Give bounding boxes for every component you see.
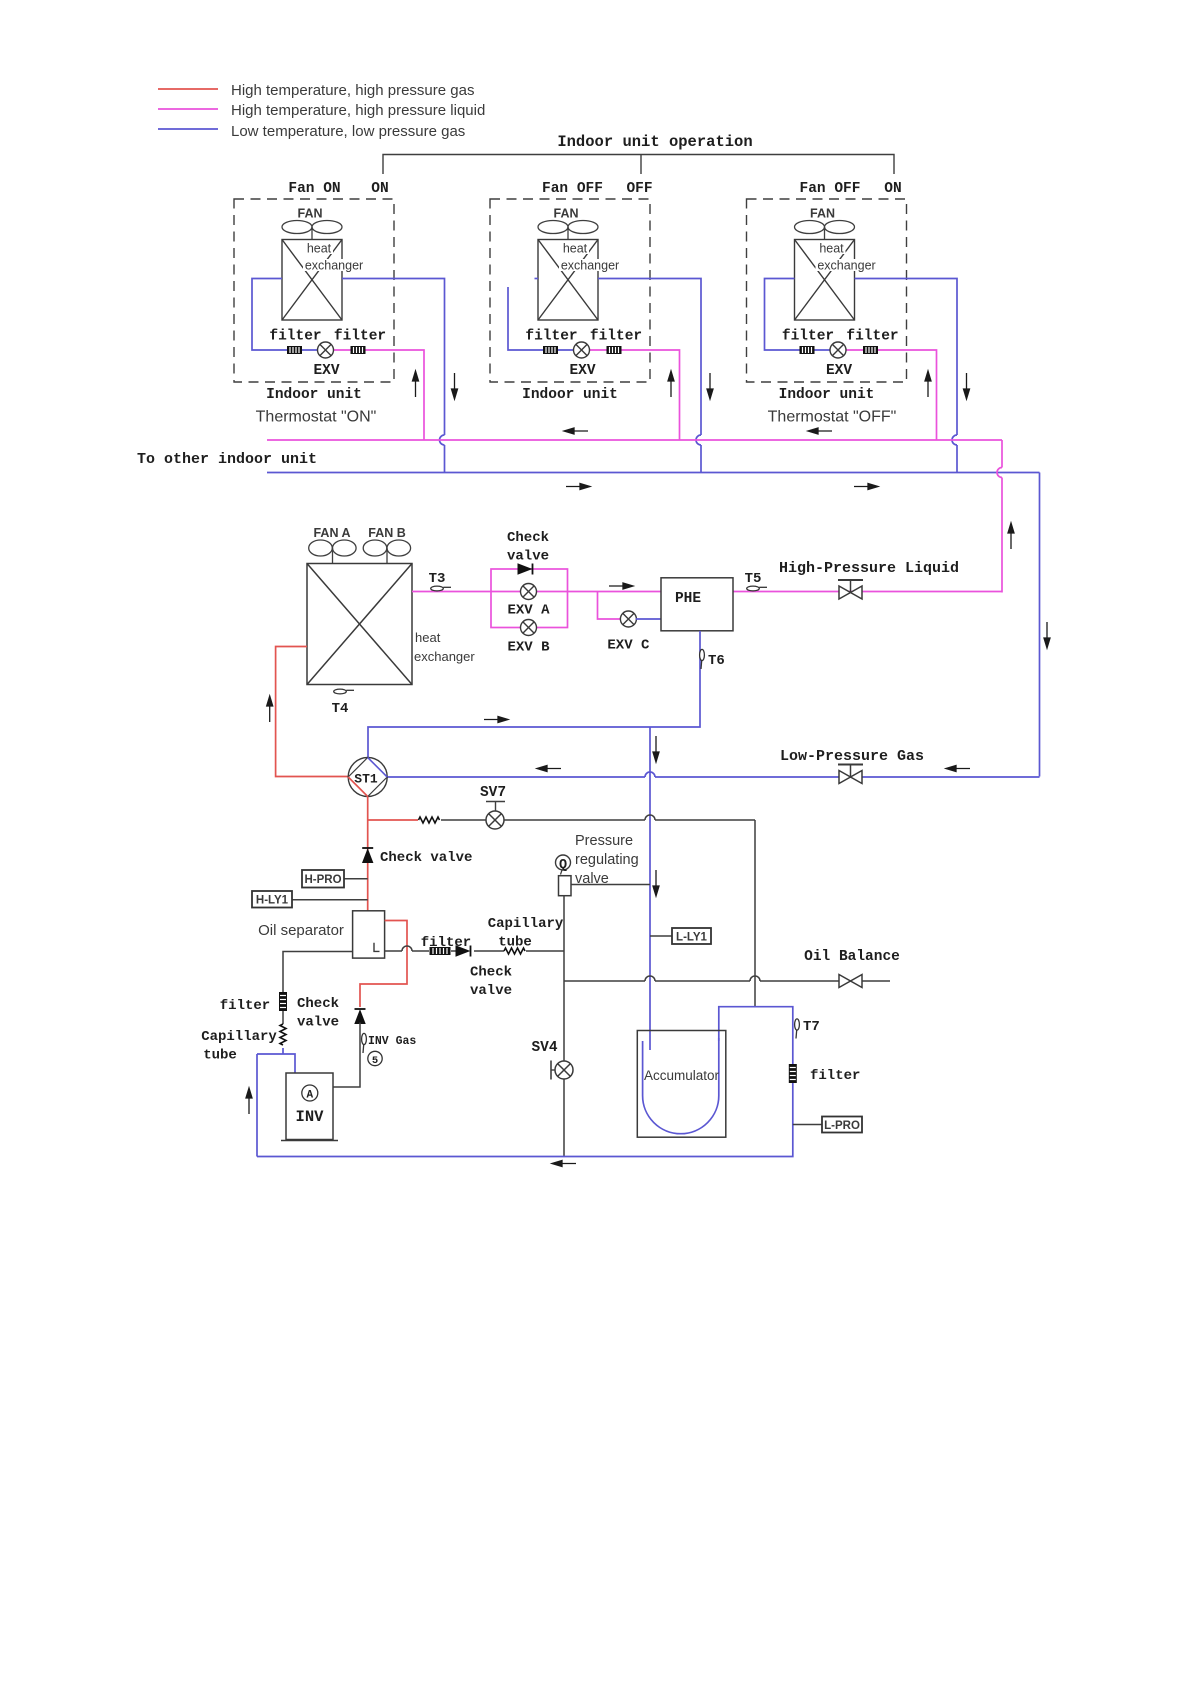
indoor unit 2 dashed enclosure — [490, 199, 650, 382]
svg-text:INV: INV — [296, 1108, 325, 1126]
wire: magenta high pressure liquid bus — [267, 439, 1002, 441]
svg-text:Fan OFF: Fan OFF — [800, 181, 861, 197]
svg-text:T3: T3 — [429, 571, 446, 587]
indoor unit 3 wire: magenta pipe EXV to filter2 and out to bus riser — [845, 350, 936, 440]
hop: magenta riser over blue bus — [997, 468, 1002, 478]
svg-text:FAN B: FAN B — [368, 526, 406, 540]
svg-text:ON: ON — [884, 181, 901, 197]
svg-text:Oil Balance: Oil Balance — [804, 949, 900, 965]
indoor unit 3 hop: blue riser over magenta bus — [952, 435, 957, 445]
indoor unit 1 wire: blue pipe filter to EXV — [302, 349, 318, 351]
wire: blue low pressure gas bus — [267, 472, 1040, 474]
svg-text:SV7: SV7 — [480, 785, 506, 801]
L-PRO sensor box — [793, 1124, 822, 1126]
circled 5 — [368, 1051, 382, 1065]
svg-text:H-LY1: H-LY1 — [256, 895, 289, 907]
svg-text:EXV: EXV — [826, 363, 852, 379]
indoor unit 1 group — [234, 181, 445, 473]
svg-text:Thermostat "ON": Thermostat "ON" — [256, 409, 377, 426]
T6 sensor — [700, 649, 705, 669]
legend: high temperature high pressure liquid line — [158, 108, 218, 110]
indoor unit 3 dashed enclosure — [747, 199, 907, 382]
svg-text:ON: ON — [371, 181, 388, 197]
svg-text:EXV B: EXV B — [507, 640, 550, 656]
svg-text:Indoor unit operation: Indoor unit operation — [557, 133, 752, 151]
svg-text:regulating: regulating — [575, 852, 639, 868]
svg-text:EXV A: EXV A — [507, 603, 550, 619]
svg-text:Low-Pressure Gas: Low-Pressure Gas — [780, 748, 924, 765]
wire: red pipe from outdoor HX left down to ST1 — [276, 647, 349, 777]
svg-text:FAN: FAN — [554, 207, 579, 221]
indoor unit 3 filter left — [800, 346, 815, 354]
svg-text:H-PRO: H-PRO — [304, 874, 341, 886]
svg-text:filter: filter — [810, 1068, 860, 1084]
SV4 solenoid valve — [555, 1061, 573, 1079]
wire: dark oil line from separator bottom-left — [283, 952, 353, 993]
svg-text:Check: Check — [470, 965, 512, 981]
wire: magenta branch down to EXV C — [598, 592, 622, 620]
svg-text:filter: filter — [525, 329, 577, 345]
arrow up unit1 magenta riser — [413, 371, 419, 397]
indoor unit 1 heat exchanger — [282, 240, 342, 321]
wire: PRV outlet to blue vertical — [572, 884, 651, 886]
arrow up unit2 magenta riser — [668, 371, 674, 397]
svg-text:5: 5 — [372, 1055, 378, 1067]
wire: magenta riser to high pressure liquid line — [1001, 440, 1003, 593]
indoor unit 3 wire: blue gas pipe from heat exchanger right down to bus — [855, 279, 958, 473]
svg-text:A: A — [306, 1090, 313, 1102]
legend: high temperature high pressure gas line — [158, 88, 218, 90]
arrow up on red pipe — [267, 696, 273, 722]
outdoor heat exchanger label — [413, 630, 447, 643]
capillary tube vertical — [280, 1024, 286, 1045]
indoor unit 1 fan blades — [282, 221, 342, 240]
indoor unit 3 wire: blue liquid-side pipe from heat exchanger to filter — [765, 279, 800, 351]
wire: blue vertical from mid line down to accumulator inlet — [649, 727, 651, 1050]
accumulator U tube — [643, 1038, 719, 1134]
outdoor heat exchanger — [307, 564, 412, 685]
indoor unit 1 filter right — [351, 346, 366, 354]
svg-text:valve: valve — [470, 983, 512, 999]
svg-text:Accumulator: Accumulator — [644, 1068, 720, 1083]
filter on accumulator outlet — [789, 1064, 797, 1083]
pressure regulating valve — [559, 876, 572, 896]
arrow down unit3 blue riser — [964, 373, 970, 399]
svg-text:ST1: ST1 — [354, 772, 378, 787]
wire: dark vertical from SV7 corner down to accumulator outlet line — [754, 820, 756, 1007]
indoor unit 2 hop: blue riser over magenta bus — [696, 435, 701, 445]
EXV A — [521, 584, 537, 600]
check valve on red discharge line — [362, 848, 373, 863]
wire: blue riser from bus down to low pressure gas line — [1039, 473, 1041, 777]
svg-text:heat: heat — [563, 242, 588, 256]
wire: oil balance line — [564, 980, 890, 982]
filter on left branch — [279, 992, 287, 1011]
arrow left on LPG line — [946, 766, 970, 772]
svg-text:L-LY1: L-LY1 — [676, 932, 707, 944]
wire: dark line check valve down to INV — [333, 1023, 360, 1088]
check valve on top edge of box — [518, 564, 533, 575]
svg-text:exchanger: exchanger — [414, 649, 475, 664]
svg-text:T4: T4 — [332, 701, 349, 717]
svg-text:filter: filter — [334, 329, 386, 345]
wire: blue suction piping from capillary to INV and to bottom bus — [257, 1048, 295, 1157]
wire: red pipe ST1 bottom to oil separator — [367, 797, 369, 911]
svg-text:EXV: EXV — [313, 363, 339, 379]
svg-text:EXV C: EXV C — [607, 638, 650, 654]
svg-text:PHE: PHE — [675, 591, 701, 607]
check valve on oil return — [456, 946, 471, 957]
arrow up unit3 magenta riser — [925, 371, 931, 397]
svg-text:High-Pressure Liquid: High-Pressure Liquid — [779, 560, 959, 577]
svg-text:tube: tube — [203, 1048, 237, 1064]
svg-text:Thermostat "OFF": Thermostat "OFF" — [768, 409, 897, 426]
arrow left on magenta bus 2 — [808, 428, 832, 434]
svg-text:filter: filter — [590, 329, 642, 345]
svg-text:valve: valve — [297, 1015, 339, 1031]
hop: oil balance over dark vertical — [750, 976, 760, 981]
svg-text:Check valve: Check valve — [380, 850, 472, 866]
arrow down unit2 blue riser — [707, 373, 713, 399]
check valve on INV discharge — [355, 1009, 366, 1024]
wire: magenta pipe HX right to check-valve box — [412, 591, 491, 593]
arrow down beside blue riser right — [1044, 622, 1050, 648]
indoor unit 3 group — [747, 181, 958, 473]
arrow up left of INV — [246, 1088, 252, 1114]
arrow down on blue vertical at valve level — [653, 870, 659, 896]
accumulator vessel box — [637, 1031, 726, 1138]
svg-text:exchanger: exchanger — [817, 259, 875, 273]
H-PRO sensor box — [344, 878, 368, 880]
outdoor fan B blades — [363, 540, 410, 564]
wire: red loop from oil separator right side down to check valve — [360, 921, 407, 1008]
arrow right under blue bus 2 — [854, 484, 878, 490]
wire: oil return line from separator right bottom — [385, 950, 564, 952]
Low-Pressure Gas service valve — [838, 765, 863, 784]
capillary on oil return — [504, 948, 525, 954]
indoor unit 3 EXV — [830, 342, 846, 358]
wire: link filter to capillary — [282, 1011, 284, 1024]
arrow down on blue vertical upper — [653, 736, 659, 762]
svg-text:T7: T7 — [803, 1019, 820, 1035]
svg-text:FAN A: FAN A — [313, 526, 350, 540]
PHE plate heat exchanger box — [661, 578, 733, 631]
wire: blue pipe EXV C to PHE — [636, 618, 661, 620]
svg-text:Check: Check — [507, 530, 549, 546]
svg-text:Pressure: Pressure — [575, 833, 633, 849]
indoor unit 2 wire: blue gas pipe from heat exchanger right down to bus — [598, 279, 701, 473]
svg-text:filter: filter — [269, 329, 321, 345]
svg-text:High temperature, high pressur: High temperature, high pressure gas — [231, 82, 474, 99]
svg-text:FAN: FAN — [298, 207, 323, 221]
ST1 four-way valve — [348, 758, 387, 797]
legend: low temperature low pressure gas line — [158, 128, 218, 130]
svg-text:heat: heat — [819, 242, 844, 256]
indoor unit 2 heat exchanger — [538, 240, 598, 321]
Accumulator label — [645, 1068, 717, 1082]
indoor unit 2 wire: blue stub at heat exchanger left — [535, 278, 539, 280]
arrow left under bottom bus — [552, 1161, 576, 1167]
bracket over indoor units — [383, 155, 894, 175]
wire: blue low pressure gas line from ST1 to right riser — [387, 776, 1039, 778]
Oil Balance valve — [839, 975, 862, 988]
svg-text:Capillary: Capillary — [488, 916, 564, 932]
svg-text:SV4: SV4 — [531, 1040, 557, 1056]
svg-text:FAN: FAN — [810, 207, 835, 221]
svg-text:OFF: OFF — [626, 181, 652, 197]
svg-text:Fan OFF: Fan OFF — [542, 181, 603, 197]
indoor unit 2 fan blades — [538, 221, 598, 240]
arrow down unit1 blue riser — [452, 373, 458, 399]
hop: oil return over red riser — [402, 946, 412, 951]
indoor unit 1 wire: blue liquid-side pipe from heat exchanger to filter — [252, 279, 287, 351]
svg-text:Indoor unit: Indoor unit — [266, 387, 362, 403]
svg-text:L-PRO: L-PRO — [824, 1120, 860, 1132]
svg-text:T5: T5 — [745, 571, 762, 587]
svg-text:To other indoor unit: To other indoor unit — [137, 451, 317, 468]
High-Pressure Liquid service valve — [838, 580, 863, 599]
arrow left on magenta bus 1 — [564, 428, 588, 434]
indoor unit 3 fan blades — [795, 221, 855, 240]
arrow up beside HP liquid riser — [1008, 523, 1014, 549]
svg-text:valve: valve — [507, 549, 549, 565]
INV inverter compressor — [286, 1073, 333, 1140]
svg-text:heat: heat — [307, 242, 332, 256]
indoor unit 2 group — [490, 181, 701, 473]
indoor unit 1 EXV — [318, 342, 334, 358]
indoor unit 1 hop: blue riser over magenta bus — [440, 435, 445, 445]
svg-text:T6: T6 — [708, 653, 725, 669]
oil separator vessel — [353, 911, 385, 958]
svg-text:filter: filter — [220, 998, 270, 1014]
wire: blue accumulator outlet line over top — [257, 1007, 793, 1157]
filter on oil return — [430, 947, 451, 955]
svg-text:Q: Q — [559, 858, 567, 873]
H-LY1 sensor box — [292, 899, 368, 901]
svg-text:High temperature, high pressur: High temperature, high pressure liquid — [231, 102, 485, 119]
wire: magenta main liquid line from box to riser at right — [568, 591, 1003, 593]
arrow left on blue line right of ST1 — [537, 766, 561, 772]
INV Gas sensor — [362, 1033, 367, 1053]
svg-text:Fan ON: Fan ON — [288, 181, 340, 197]
indoor unit 2 EXV — [574, 342, 590, 358]
SV7 branch: red segment, capillary, SV7 valve, to corner — [368, 819, 418, 821]
arrow right between box and PHE — [609, 583, 633, 589]
arrow right on blue mid line — [484, 717, 508, 723]
indoor unit 1 filter left — [287, 346, 302, 354]
hop: LPG line over blue vertical — [645, 772, 655, 777]
indoor unit 2 wire: blue pipe filter to EXV — [558, 349, 574, 351]
svg-text:Indoor unit: Indoor unit — [779, 387, 875, 403]
arrow right under blue bus 1 — [566, 484, 590, 490]
indoor unit 2 wire: magenta pipe EXV to filter2 and out to bus riser — [589, 350, 680, 440]
svg-text:tube: tube — [498, 935, 532, 951]
oil pickup tube inside separator — [374, 943, 380, 952]
indoor unit 1 wire: magenta pipe EXV to filter2 and out to bus riser — [333, 350, 424, 440]
indoor unit 1 wire: blue gas pipe from heat exchanger right down to bus — [342, 279, 445, 473]
T4 sensor under outdoor heat exchanger — [334, 689, 354, 694]
T3 sensor — [431, 586, 451, 591]
indoor unit 1 dashed enclosure — [234, 199, 394, 382]
svg-text:exchanger: exchanger — [305, 259, 363, 273]
indoor unit 3 wire: blue pipe filter to EXV — [815, 349, 831, 351]
indoor unit 2 wire: blue pipe riser to filter — [508, 287, 543, 350]
indoor unit 3 heat exchanger — [795, 240, 855, 321]
wire: dark vertical through SV4 to bottom bus — [563, 895, 565, 1157]
svg-text:exchanger: exchanger — [561, 259, 619, 273]
svg-text:filter: filter — [846, 329, 898, 345]
T5 sensor — [747, 586, 767, 591]
svg-text:Capillary: Capillary — [201, 1029, 277, 1045]
indoor unit 2 filter left — [543, 346, 558, 354]
svg-text:EXV: EXV — [569, 363, 595, 379]
wire: magenta line through check-valve box — [491, 591, 568, 593]
wire: blue pipe PHE bottom outlet with T6 down and left to ST1 top — [368, 631, 700, 758]
EXV C — [620, 611, 636, 627]
svg-text:heat: heat — [415, 630, 441, 645]
check valve box around EXV A/B (magenta) — [491, 569, 568, 628]
L-LY1 sensor box — [650, 935, 672, 937]
indoor unit 3 filter right — [863, 346, 878, 354]
svg-text:Check: Check — [297, 996, 339, 1012]
SV7 solenoid valve — [486, 811, 504, 829]
T7 sensor — [795, 1019, 800, 1039]
capillary on SV7 line — [419, 817, 440, 823]
svg-text:INV Gas: INV Gas — [368, 1035, 416, 1048]
svg-text:Low temperature, low pressure: Low temperature, low pressure gas — [231, 123, 465, 140]
svg-text:filter: filter — [782, 329, 834, 345]
hop: SV7 line over blue vertical — [645, 815, 655, 820]
svg-text:Oil separator: Oil separator — [258, 922, 344, 939]
EXV B — [521, 620, 537, 636]
svg-text:Indoor unit: Indoor unit — [522, 387, 618, 403]
indoor unit 2 filter right — [607, 346, 622, 354]
outdoor fan A blades — [309, 540, 356, 564]
hop: oil balance over blue vertical — [645, 976, 655, 981]
